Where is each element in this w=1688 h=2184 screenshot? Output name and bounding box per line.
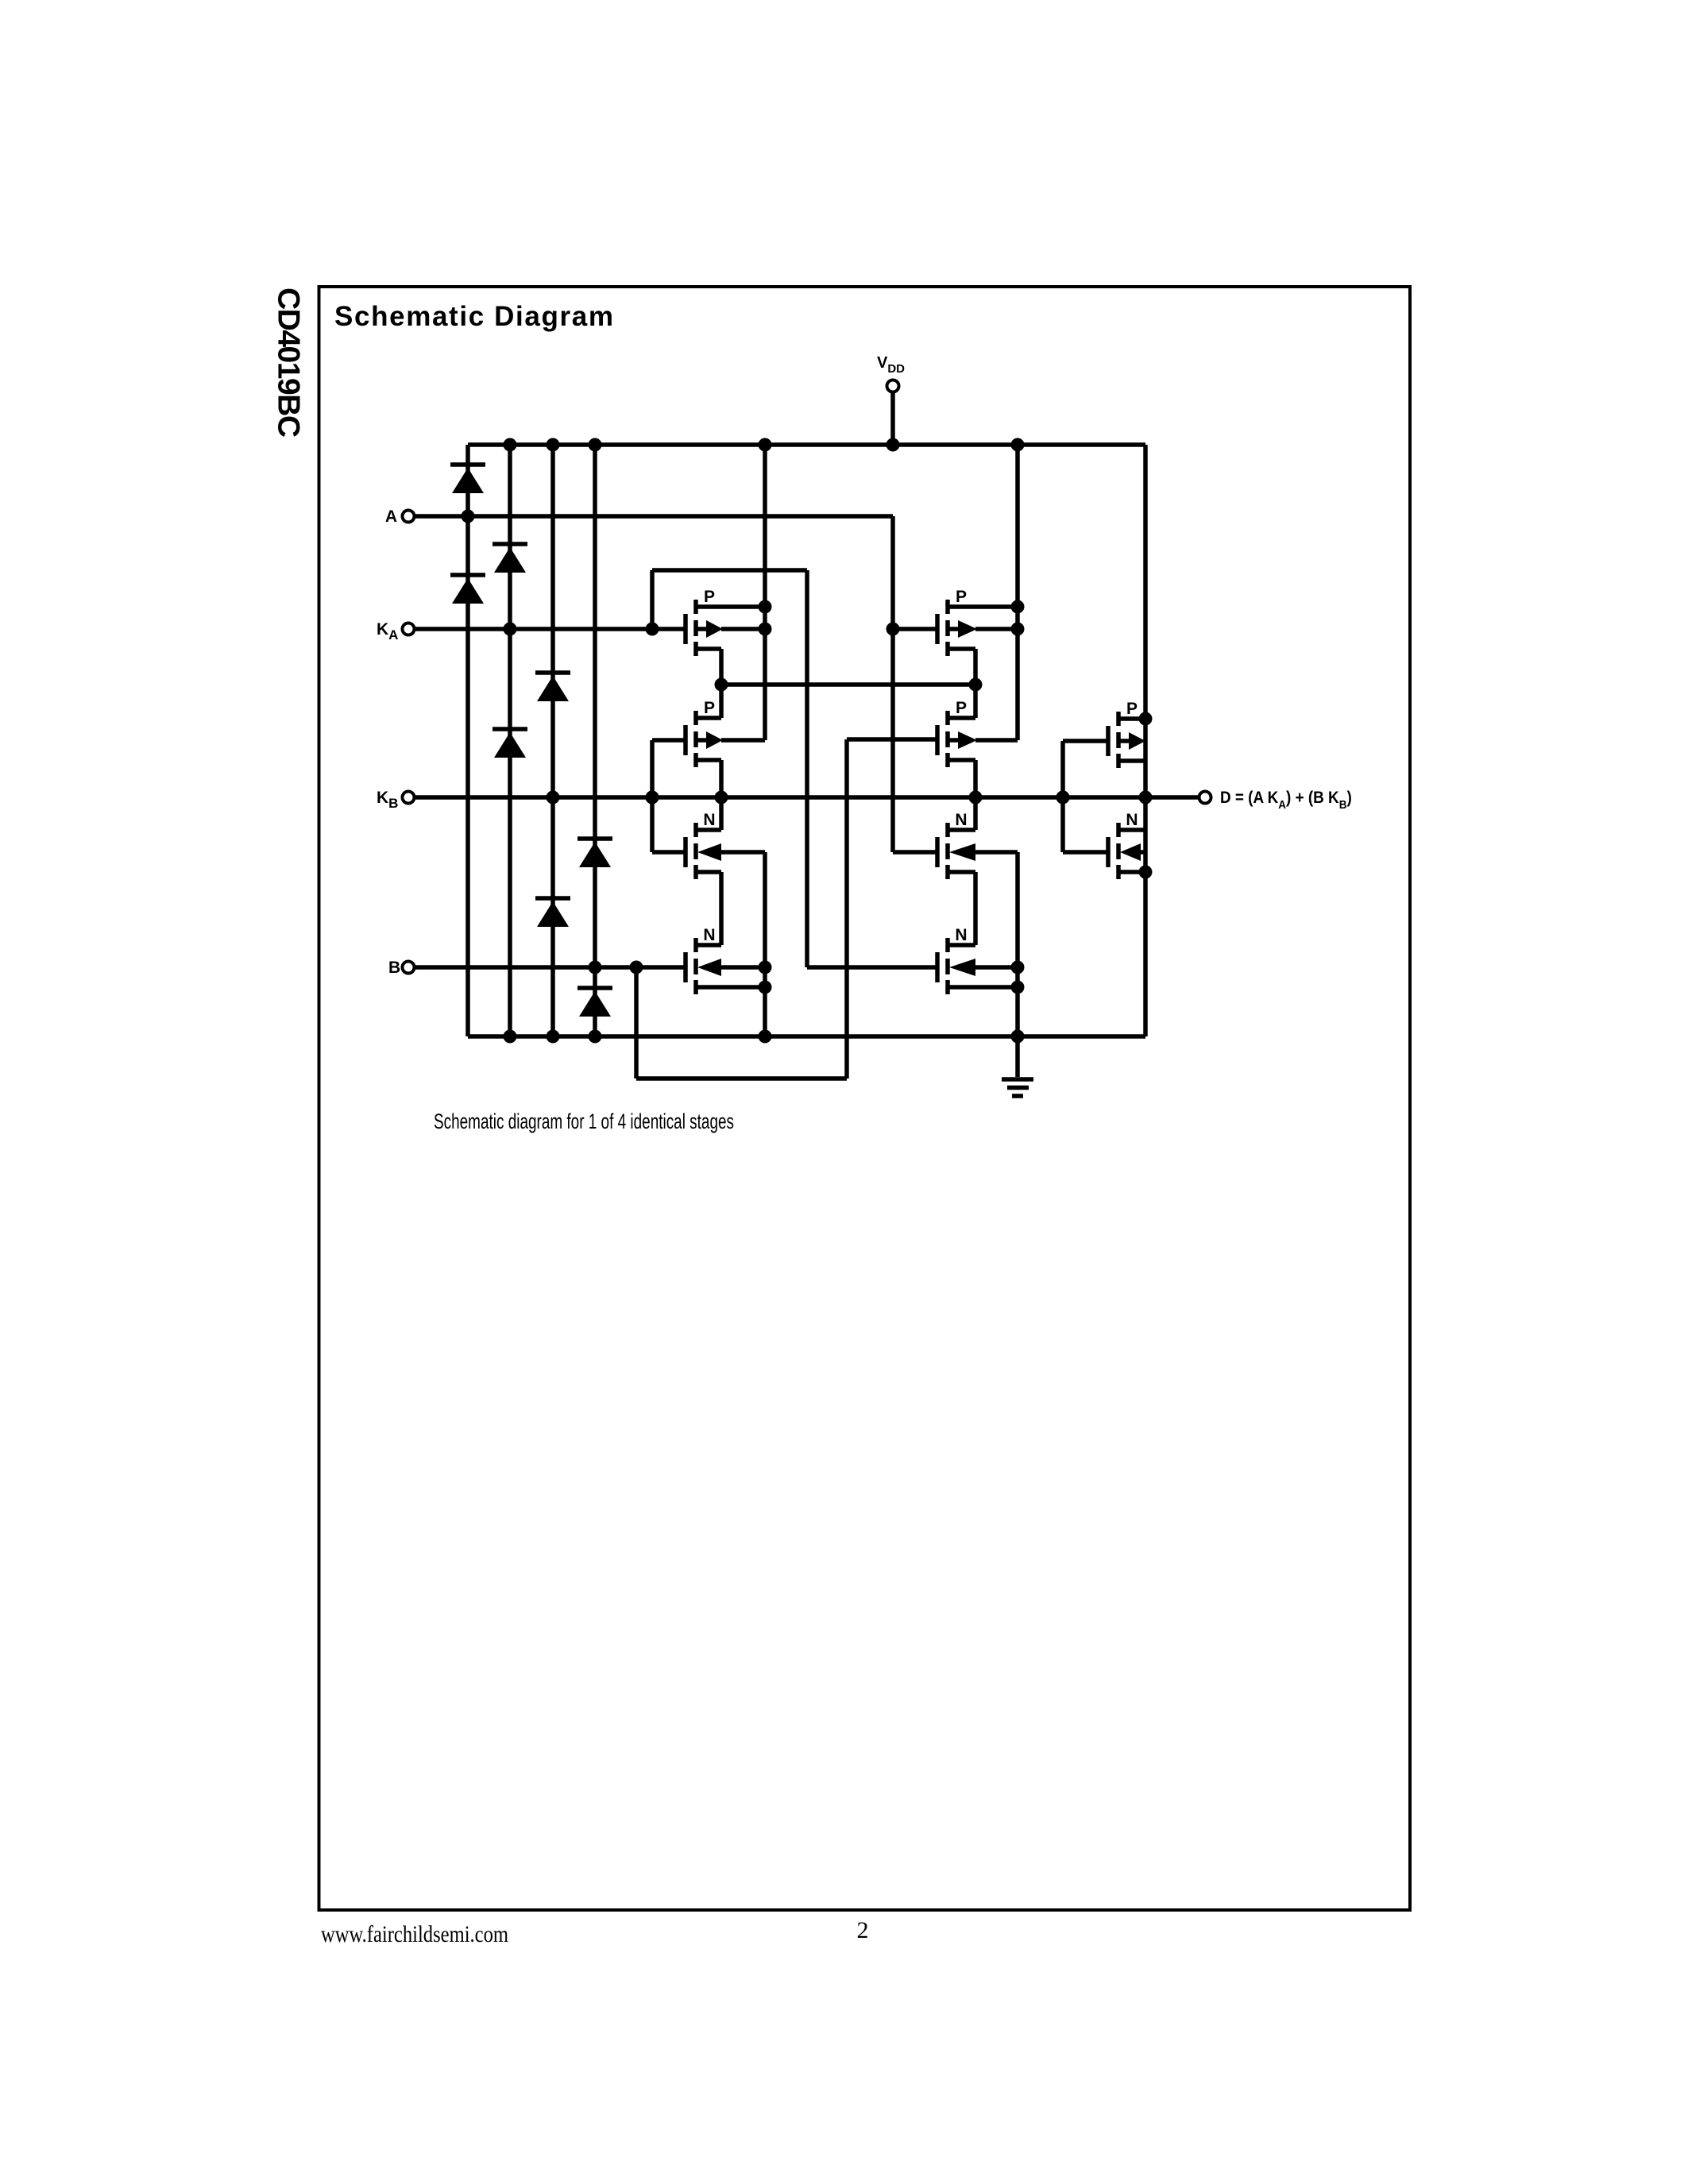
svg-text:CD4019BC: CD4019BC <box>272 287 306 438</box>
svg-text:B: B <box>388 959 400 977</box>
svg-text:N: N <box>1126 811 1138 829</box>
svg-text:N: N <box>703 811 715 829</box>
svg-text:N: N <box>955 811 967 829</box>
svg-text:N: N <box>955 926 967 944</box>
svg-text:2: 2 <box>857 1917 869 1943</box>
svg-text:A: A <box>385 507 397 526</box>
svg-text:P: P <box>956 699 967 717</box>
svg-text:P: P <box>1126 700 1138 718</box>
svg-text:P: P <box>956 588 967 606</box>
svg-text:P: P <box>704 588 715 606</box>
svg-text:Schematic Diagram: Schematic Diagram <box>334 301 613 332</box>
svg-text:P: P <box>704 699 715 717</box>
svg-text:Schematic diagram for 1 of 4 i: Schematic diagram for 1 of 4 identical s… <box>434 1109 734 1133</box>
svg-text:N: N <box>703 926 715 944</box>
svg-text:www.fairchildsemi.com: www.fairchildsemi.com <box>321 1921 508 1947</box>
